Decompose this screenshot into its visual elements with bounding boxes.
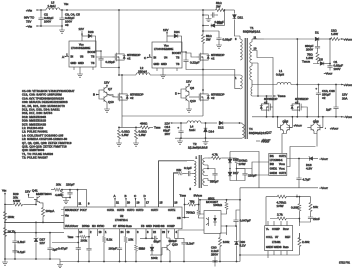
svg-text:C14: AVX TPSE686M020R0150: C14: AVX TPSE686M020R0150 [22,96,64,100]
wire D22 up to rail [224,10,226,26]
svg-text:SYNC: SYNC [97,224,104,228]
svg-text:D15, D17, D26: BAT54: D15, D17, D26: BAT54 [22,111,53,115]
diode D5 [318,58,331,66]
sense resistor left 0.02ohm [116,127,130,146]
12V label Q8 [186,80,191,87]
T1 tertiary winding [251,85,252,97]
svg-text:2.49k: 2.49k [302,240,310,244]
capacitor 0.1uF [12,244,25,254]
U2 pins 15 16 up [159,161,188,207]
svg-text:BOOST: BOOST [172,51,181,55]
svg-text:1.5W: 1.5W [306,56,313,60]
node TSNUB stub [267,94,286,98]
wire source lower-right down [202,104,204,116]
transistor Q10 [101,96,114,104]
output cap 1uF [326,85,339,117]
12V supply U4 [163,28,168,34]
svg-text:1µF: 1µF [326,108,331,112]
T1 secondary center tap [250,63,259,97]
svg-text:SPRG: SPRG [118,224,125,228]
boost cap right of U3 [96,50,120,68]
phase node right leg [202,64,204,90]
svg-text:1/4W: 1/4W [13,199,20,203]
svg-text:1/4W: 1/4W [277,204,284,208]
ground bottom left [2,259,8,265]
svg-text:D17: D17 [233,171,239,175]
svg-text:330pF: 330pF [168,239,177,243]
opto LED [214,215,216,226]
svg-text:Q10: Q10 [108,100,114,104]
svg-text:Q7, Q8, Q25, Q26: ZETEX FMMT61: Q7, Q8, Q25, Q26: ZETEX FMMT619 [22,141,72,145]
svg-text:0.1µF: 0.1µF [184,166,192,170]
svg-text:×2: ×2 [264,101,268,105]
svg-text:GND2: GND2 [270,171,278,175]
svg-text:LT1431: LT1431 [272,240,281,244]
svg-text:L5: SUMIDA CDEP105-1R3MC-50: L5: SUMIDA CDEP105-1R3MC-50 [22,137,68,141]
svg-text:MMBT3904: MMBT3904 [36,192,52,196]
pin 22 GND stub [151,229,156,239]
svg-text:499Ω: 499Ω [140,122,148,126]
svg-text:0.1µF: 0.1µF [18,250,26,254]
transistor pair Q17 Q18 [307,117,323,135]
U2 top pin stubs A-D [114,194,150,207]
svg-text:0.33k: 0.33k [291,206,299,210]
node TSNS arrow u2 [68,235,79,239]
svg-text:LTC4444EMS8E: LTC4444EMS8E [154,47,174,51]
wire base q41 [34,200,36,205]
svg-text:NC: NC [92,224,96,228]
svg-text:12V: 12V [104,81,109,85]
wire bias mid rail [5,221,64,223]
resistor 33k rleb [135,229,144,262]
svg-text:1.5W: 1.5W [122,133,129,137]
cap 0.1uF drive [184,166,194,176]
svg-text:LTC4444EMS8E: LTC4444EMS8E [71,46,91,50]
wire -VIN rail [41,25,62,27]
pin stubs U4 bottom [157,68,177,73]
diode D21 [233,10,244,36]
ground bias [177,138,183,144]
resistor 750k [186,209,204,218]
bottom rail [60,261,240,263]
ground input [59,26,65,33]
ground bias d14 [203,138,209,145]
transistor sync fet left Si7852DP [260,100,273,114]
svg-text:4.99k: 4.99k [55,193,63,197]
svg-text:20A: 20A [342,97,347,101]
svg-text:TS: TS [91,55,95,59]
junction dots input [40,9,68,27]
capacitor C3 C4 C5 [59,10,80,27]
snubber resistor 51 2W vertical [202,33,213,50]
cap 68pF [140,236,161,244]
svg-text:TS: TS [91,61,95,65]
U2 right pin CS [182,217,189,219]
svg-text:Q7: Q7 [108,87,112,91]
node -VIN input arrow [26,24,41,28]
wire zener top to q41 base rail [35,222,37,232]
bottom right rail [240,188,299,262]
wire bridge source rail [122,104,203,116]
wire R29 row [5,204,12,206]
svg-text:4.3V: 4.3V [306,167,312,171]
svg-text:POLY: POLY [80,208,87,212]
svg-text:Q8: Q8 [190,86,194,90]
svg-text:1.3µH: 1.3µH [48,4,56,8]
svg-text:Q20: MMBT3906: Q20: MMBT3906 [22,148,45,152]
svg-text:12V: 12V [163,28,168,32]
svg-text:×2: ×2 [295,101,299,105]
sense resistor right 0.02ohm [133,127,147,146]
cap C14 [163,123,184,138]
resistor 75ohm 1.5W [306,51,319,63]
svg-text:22k: 22k [176,168,181,172]
wire bias low rail [5,233,64,234]
svg-text:D23: D23 [88,30,94,34]
svg-text:D12: D12 [218,126,224,130]
wire L1 to +VOUT [291,84,344,86]
svg-text:L2: PULSE PA0801: L2: PULSE PA0801 [22,130,48,134]
net label B to Q7 [93,93,99,97]
wires to U5 inputs [237,162,269,175]
svg-text:D1: D1 [315,31,319,35]
svg-text:2W: 2W [216,5,221,9]
svg-text:FB: FB [141,224,145,228]
svg-text:D14: D14 [209,130,215,134]
svg-text:100V: 100V [334,67,341,71]
snubber cap B 0.33uF vertical [203,31,232,48]
zener D20 5.1V [234,226,245,262]
svg-text:L4: COILCRAFT DO1608C-105: L4: COILCRAFT DO1608C-105 [22,133,64,137]
IC U4 LTC4444EMS8E box [152,42,182,68]
T4 transformer [240,123,267,138]
transistor Q7 [101,87,112,94]
svg-text:180pF: 180pF [108,247,117,251]
wire opto top [200,200,240,214]
resistor 5.1k ct [103,229,113,262]
wire left gate to rail crossing [272,107,274,117]
cap 330pF sec [208,169,219,184]
svg-text:4.7µF: 4.7µF [303,178,311,182]
pin stubs U3 bottom [74,67,93,72]
svg-text:T4: T4 [249,127,253,131]
svg-text:U4: U4 [164,56,168,60]
diode D22 [203,21,225,27]
svg-text:250V: 250V [211,253,218,257]
cap 330pF fb [168,239,177,243]
svg-text:C30: MURATA DE2E3KH222MB3B: C30: MURATA DE2E3KH222MB3B [22,100,68,104]
wire bias return [175,137,242,139]
inductor L1 [276,69,291,85]
svg-text:20V: 20V [165,132,170,136]
svg-text:×3: ×3 [65,23,69,27]
wire rail39 down to right fet drain [296,39,298,100]
svg-text:×2: ×2 [130,96,134,100]
svg-text:330pF: 330pF [210,180,219,184]
svg-text:12V: 12V [40,241,45,245]
svg-text:U2: U2 [120,214,124,218]
svg-text:×2: ×2 [127,57,131,61]
svg-text:0.047µF: 0.047µF [240,219,251,223]
LT1431 pin stubs [268,221,287,255]
IC LT1431 box [265,226,293,251]
svg-text:2.7k: 2.7k [277,213,283,217]
svg-text:COLL: COLL [266,235,273,239]
svg-text:D22: D22 [217,21,223,25]
wire center tap rail [258,84,277,86]
svg-text:150nH: 150nH [138,70,147,74]
cap 0.047uF [233,214,250,226]
svg-text:D26: D26 [139,247,145,251]
svg-text:GND: GND [161,62,167,66]
wire opto out [221,210,240,235]
svg-text:×2: ×2 [211,96,215,100]
transistor pair Q15 Q16 [278,117,293,134]
svg-text:B: B [125,194,127,198]
svg-text:A: A [62,55,64,59]
svg-text:100k: 100k [151,256,158,260]
svg-text:T2: T2 [193,142,197,146]
pin VCC U4 [166,34,168,42]
svg-text:SS: SS [161,224,165,228]
snubber cap A 0.33uF [203,12,224,24]
diode D17 [228,171,239,179]
svg-text:GND: GND [146,224,152,228]
cap 180pF [108,229,123,262]
transistor lower-left MOSFET Si7852DP [116,90,144,104]
svg-text:GND: GND [154,62,160,66]
transistor Q41 MMBT3904 [32,189,52,207]
diode D23 top [82,30,101,51]
resistor 4.99k adly [55,190,70,198]
svg-text:72V: 72V [26,20,31,24]
12V label bias [165,121,182,125]
capacitor C2 [38,10,53,26]
wire gate U4 to fet [186,53,197,57]
node A input U3 [62,53,69,59]
svg-text:Q20: Q20 [172,243,178,247]
svg-text:DPRG: DPRG [82,224,90,228]
wire from rail down to Q drain [118,10,120,50]
svg-text:×2: ×2 [322,96,326,100]
svg-text:12V: 12V [25,190,30,194]
svg-text:GNDS: GNDS [274,245,282,249]
inductor L4 [187,121,201,132]
wire bias row [181,122,187,124]
svg-text:3722 F01: 3722 F01 [339,261,351,265]
boost cap right of U4 [182,51,203,69]
cap 2.2nF comp [181,238,194,261]
transistor Q8 [183,86,194,93]
svg-text:220pF: 220pF [66,183,75,187]
svg-text:200V: 200V [306,48,313,52]
svg-text:100kΩ: 100kΩ [213,203,223,207]
svg-text:COMP: COMP [272,227,280,231]
svg-text:×2: ×2 [211,57,215,61]
svg-text:Q17: Q17 [266,131,272,135]
svg-text:150k: 150k [8,215,15,219]
pin VCC U3 top [81,33,83,41]
svg-text:C1-C5: VITRAMON VJ1812Y824KXBA: C1-C5: VITRAMON VJ1812Y824KXBAT [22,89,75,93]
diode D12 [206,121,240,129]
svg-text:LTC1693-1: LTC1693-1 [270,158,283,162]
svg-text:750kΩ: 750kΩ [186,211,196,215]
svg-text:U3: U3 [80,55,84,59]
svg-text:D12, D14, D23, D24: BAS21: D12, D14, D23, D24: BAS21 [22,108,60,112]
wire opto led bottom [175,230,205,238]
svg-text:IN: IN [71,55,74,59]
svg-text:OUTA: OUTA [107,208,114,212]
svg-text:D24: D24 [174,30,180,34]
resistor 100k ss [150,255,162,260]
resistor 100ohm sec [235,158,248,166]
wires adly poly to pins [70,190,87,207]
vertical right rail [298,197,300,240]
wire T1 pin10 route to left gate [252,51,273,108]
svg-text:OUTB: OUTB [117,208,124,212]
T1 secondary top [250,39,264,63]
node SVBUS arrow [194,194,203,210]
pin 8 FB stub [145,229,149,239]
transistor Q upper-left Si7852DP [113,50,141,64]
svg-text:5:3(100µH):1:1: 5:3(100µH):1:1 [249,131,267,135]
pin 23 PGND stub [161,229,165,262]
wire L2 to T1 primary top [150,74,240,76]
wire gate lower-right [189,96,197,98]
parts list text block [22,89,75,160]
wire U5 vcc up to cluster2 [287,147,316,167]
wires q7 q10 [96,87,107,107]
svg-text:1.5W: 1.5W [139,133,146,137]
svg-text:D16: MMBZ5239B: D16: MMBZ5239B [22,115,46,119]
svg-text:T2: PULSE PA0297: T2: PULSE PA0297 [22,156,48,160]
wire phase left leg to L2 [119,74,136,76]
resistor 20k adly [51,183,70,192]
T1 T4 core [245,38,247,139]
svg-text:100V: 100V [44,20,51,24]
zener D27 12V [34,233,46,259]
svg-text:OUT2: OUT2 [279,171,286,175]
wire TSNS left [52,242,78,244]
wire drain lower-right up to phase [202,89,204,91]
resistor 2.7k [270,213,292,221]
resistor 150k [4,206,15,222]
wire down to sense row [119,116,136,127]
svg-text:GND: GND [71,61,77,65]
zener D16 [306,156,318,170]
svg-text:2W: 2W [206,38,211,42]
svg-text:100k: 100k [81,238,88,242]
wires right rail top [292,197,311,222]
node C input U4 [144,54,152,60]
svg-text:Q10: Q10 [190,99,196,103]
pin 2 stub [88,229,92,247]
ground Q10 [104,107,110,112]
svg-text:PGND: PGND [153,224,161,228]
pin 18 stub [98,229,102,236]
svg-text:OUTE: OUTE [168,208,175,212]
node VIN bottom left [2,189,7,260]
inductor L2 [136,66,150,75]
ground U4 [160,73,166,78]
node +VIN input arrow [26,8,41,12]
svg-text:10k: 10k [128,238,133,242]
wire bias ground rail [5,259,60,262]
+VOUT arrow mid [285,119,303,128]
node TSNUB [302,60,318,64]
12V supply U3 [79,27,84,36]
ground adly [63,198,69,204]
svg-text:1.5W: 1.5W [331,32,338,36]
transistor sync fet right Si7852DP [291,100,304,114]
svg-text:U7: U7 [275,235,279,239]
wire sync right source [296,114,298,117]
T2 transformer [190,155,209,191]
wire -VOUT rail [252,116,344,118]
svg-text:22nF: 22nF [313,217,320,221]
svg-text:12V: 12V [79,27,84,31]
wire lower-left fet drain up [121,75,123,90]
svg-text:IN: IN [154,56,157,60]
inductor L3 [46,1,60,11]
U2 left pins [5,210,64,223]
ground rail left [57,262,63,268]
output caps C10 C36 [316,85,336,117]
diode D1 [315,31,320,41]
svg-text:0.47µF: 0.47µF [58,247,68,251]
ground Q8 [186,107,192,112]
wires q8 [178,86,189,107]
svg-text:75k: 75k [190,200,195,204]
svg-text:5.1k: 5.1k [107,238,113,242]
cap pin2 [86,247,91,262]
svg-text:IN2: IN2 [270,162,275,166]
node +VOUT t4 [256,139,270,143]
node +VOUT top [341,37,352,41]
svg-text:0.33µF: 0.33µF [223,38,233,42]
wire q7 emitter to gate [107,95,116,98]
12V label Q7 [104,81,109,88]
svg-text:20k: 20k [56,183,61,187]
svg-text:ADLY: ADLY [72,208,79,212]
wire T1 bottom to left fet drain [252,96,267,100]
resistor 4.7k sec [208,153,228,160]
svg-text:100k: 100k [223,240,230,244]
cap 220pF adly [66,183,75,198]
svg-text:C13, C36: SANYO 16SP150M: C13, C36: SANYO 16SP150M [22,93,62,97]
svg-text:T1: T1 [250,26,254,30]
svg-text:REF: REF [285,235,291,239]
svg-text:D5: D5 [319,58,323,62]
svg-text:1(1.3mH):0.5:0.5: 1(1.3mH):0.5:0.5 [188,146,208,150]
capacitor C1 [327,39,343,71]
resistor 100k fb divider [80,235,89,242]
resistor 0.33k inline [291,202,301,212]
snubber cap 680pF 200V [305,39,320,52]
svg-text:1mH: 1mH [189,128,195,132]
svg-text:OUTC: OUTC [127,208,134,212]
svg-text:GNDF: GNDF [266,245,274,249]
svg-text:LTC3722-1: LTC3722-1 [115,218,128,222]
wire TS U3 to fet gate [96,56,113,58]
U5 output wires and D16 [287,158,309,160]
resistor 100k opto pullup [213,200,228,214]
pin 14 stub [77,229,82,243]
wire cluster1 down to U5 [281,134,283,154]
pin 7 SS stub [167,229,170,238]
opto MOC207 box [204,197,221,234]
phase line right leg upper [202,10,204,33]
